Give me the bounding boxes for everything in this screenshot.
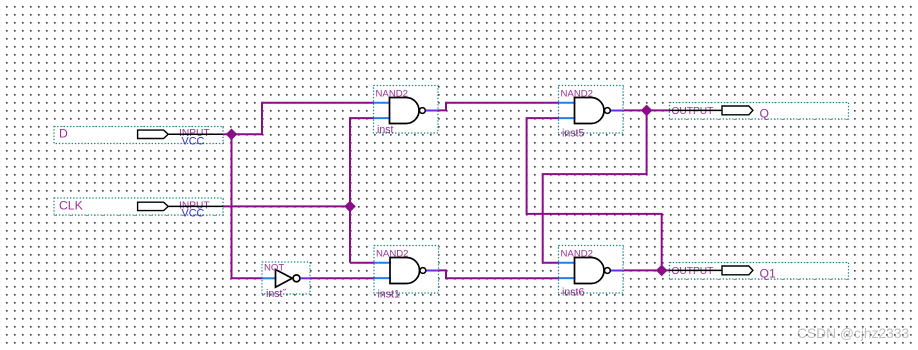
inst gate body — [390, 98, 419, 124]
svg-text:inst: inst — [377, 124, 394, 136]
inst4 input stub — [262, 277, 277, 279]
inst5 gate body — [575, 98, 604, 124]
Q pin symbol — [722, 106, 753, 115]
svg-text:VCC: VCC — [182, 136, 205, 148]
NAND2 gate inst — [374, 86, 439, 137]
inst6 output stub pin 3 — [610, 270, 623, 272]
wire CLK junction up to inst pin2 — [350, 118, 374, 263]
wire D to NAND2 inst pin1 — [223, 103, 374, 135]
svg-text:Q1: Q1 — [760, 267, 776, 281]
wire CLK junction to inst1 pin1 — [350, 262, 374, 264]
inst6 gate body — [575, 258, 605, 284]
output pin Q — [670, 103, 849, 121]
junction node Q1 — [657, 265, 667, 275]
inst6 input stub pin 2 — [559, 277, 576, 279]
NAND2 inst6 selection box — [559, 246, 624, 294]
svg-text:OUTPUT: OUTPUT — [672, 106, 714, 117]
inst1 gate body — [390, 258, 420, 284]
svg-text:Q: Q — [760, 107, 769, 121]
D pin symbol — [138, 130, 169, 138]
inst4 output bubble — [293, 275, 300, 282]
NOT inst4 selection box — [262, 262, 310, 294]
svg-text:NAND2: NAND2 — [561, 249, 594, 260]
inst5 input stub pin 2 — [559, 117, 576, 119]
svg-text:CSDN @cjhz2333: CSDN @cjhz2333 — [797, 326, 909, 341]
wire inst5 output to pin Q — [624, 109, 670, 111]
wire inst6 output to pin Q1 — [624, 269, 670, 271]
NAND2 inst1 selection box — [374, 246, 439, 294]
wire CLK to junction — [223, 205, 350, 207]
NOT gate inst4 — [262, 262, 310, 300]
svg-text:NAND2: NAND2 — [376, 249, 409, 260]
inst4 output stub — [301, 277, 310, 279]
inst6 output bubble — [605, 268, 611, 274]
input pin CLK selection box — [54, 198, 223, 215]
svg-text:OUTPUT: OUTPUT — [672, 266, 714, 277]
svg-text:inst5: inst5 — [562, 127, 584, 139]
junction node D — [226, 129, 236, 139]
CLK pin symbol — [138, 202, 169, 210]
junction node Q — [642, 105, 652, 115]
svg-text:inst1: inst1 — [378, 288, 400, 300]
wire inst output to inst5 pin1 — [438, 103, 559, 111]
inst input stub pin 2 — [374, 117, 391, 119]
wire NOT output to inst1 pin2 — [310, 277, 374, 279]
inst4 triangle body — [276, 270, 293, 288]
Q1 pin symbol — [722, 266, 753, 275]
wire D down to NOT input — [232, 134, 263, 278]
inst1 input stub pin 1 — [374, 262, 391, 264]
junction node CLK — [345, 201, 355, 211]
svg-text:NAND2: NAND2 — [561, 89, 594, 100]
inst5 input stub pin 1 — [559, 102, 576, 104]
inst output bubble — [420, 108, 426, 114]
wire inst1 output to inst6 pin2 — [439, 270, 559, 278]
svg-text:NOT: NOT — [264, 263, 284, 274]
input pin D — [54, 127, 223, 148]
inst5 output bubble — [605, 108, 611, 114]
svg-text:inst6: inst6 — [562, 286, 584, 298]
svg-text:CLK: CLK — [59, 199, 83, 213]
NAND2 inst selection box — [374, 86, 439, 134]
inst1 output stub pin 3 — [426, 270, 439, 272]
inst input stub pin 1 — [374, 102, 391, 104]
NAND2 inst5 selection box — [559, 86, 624, 134]
inst5 output stub pin 3 — [610, 110, 623, 112]
Q1 pin lead — [670, 269, 723, 271]
output pin Q selection box — [670, 103, 849, 120]
svg-text:D: D — [59, 127, 68, 141]
input pin D selection box — [54, 127, 223, 144]
Q pin lead — [670, 109, 723, 111]
wire Q feedback to inst6 pin1 — [543, 110, 647, 262]
CLK pin lead — [168, 205, 223, 207]
svg-text:VCC: VCC — [182, 208, 205, 220]
inst1 input stub pin 2 — [374, 277, 391, 279]
inst6 input stub pin 1 — [559, 262, 576, 264]
D pin lead — [168, 133, 223, 135]
NAND2 gate inst1 — [374, 246, 439, 301]
NAND2 gate inst5 — [559, 86, 624, 140]
output pin Q1 — [670, 263, 849, 281]
inst1 output bubble — [420, 268, 426, 274]
wire Q1 feedback to inst5 pin2 — [527, 118, 662, 270]
NAND2 gate inst6 — [559, 246, 624, 299]
input pin CLK — [54, 198, 223, 220]
inst output stub pin 3 — [425, 110, 438, 112]
svg-text:inst˝: inst˝ — [266, 288, 287, 300]
svg-text:NAND2: NAND2 — [376, 89, 409, 100]
output pin Q1 selection box — [670, 263, 849, 280]
